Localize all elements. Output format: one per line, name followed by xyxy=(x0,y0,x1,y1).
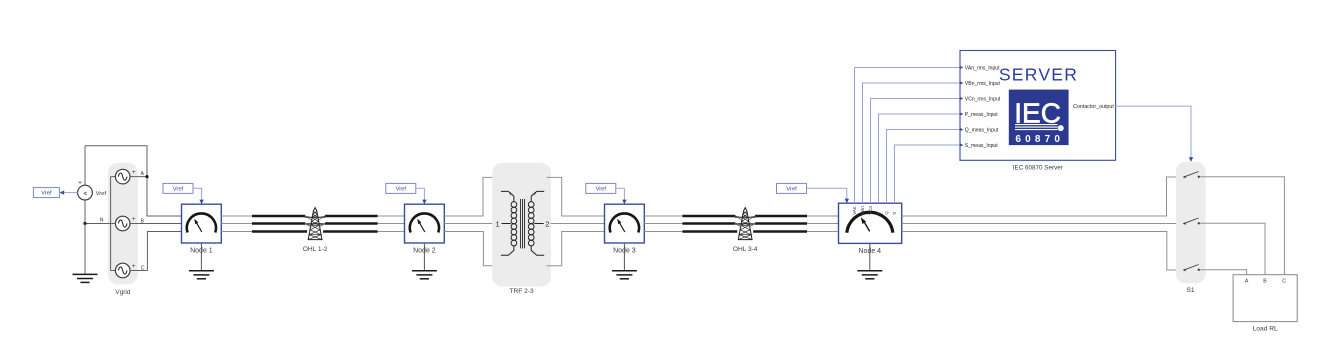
label S1 xyxy=(1186,287,1194,294)
ground (Node 4) xyxy=(857,271,882,279)
svg-text:VAn_rms_Input: VAn_rms_Input xyxy=(965,65,1000,71)
label Vgrid xyxy=(115,289,131,296)
svg-text:A: A xyxy=(1245,278,1249,284)
label Node 2 xyxy=(413,247,436,254)
svg-text:TRF 2-3: TRF 2-3 xyxy=(510,288,535,295)
wire (bus stub to phase A source) xyxy=(111,176,116,178)
svg-text:VBn_rms_Input: VBn_rms_Input xyxy=(965,81,1001,87)
Node 4 input pin labels xyxy=(852,206,897,215)
meter Node 4 xyxy=(839,203,902,243)
svg-text:OHL 1-2: OHL 1-2 xyxy=(303,246,328,253)
wire tag to Node 4 xyxy=(807,188,850,203)
svg-text:SERVER: SERVER xyxy=(999,65,1078,85)
svg-text:+: + xyxy=(132,169,136,176)
wire Node 2 pin A to TRF pin 1 top xyxy=(444,177,497,216)
wire (bus stub to phase C source) xyxy=(111,270,116,272)
load pin label B xyxy=(1263,278,1267,284)
polarity + of phase B xyxy=(132,216,136,223)
pin number 2 xyxy=(545,219,549,228)
svg-text:Vgrid: Vgrid xyxy=(115,289,131,296)
svg-text:VCn: VCn xyxy=(868,206,873,215)
label SERVER xyxy=(999,65,1078,85)
wire S1 pole 3 to load pin A xyxy=(1200,270,1247,275)
wire top run xyxy=(85,146,147,177)
pin number 1 xyxy=(496,219,500,228)
transformer secondary winding xyxy=(528,202,534,246)
port 1 lead xyxy=(502,223,511,225)
svg-text:OHL 3-4: OHL 3-4 xyxy=(733,246,758,253)
label TRF 2-3 xyxy=(510,288,535,295)
tag Vref (probe output) xyxy=(33,188,59,198)
svg-text:N: N xyxy=(100,218,104,224)
svg-text:P: P xyxy=(876,212,881,215)
svg-text:Vref: Vref xyxy=(396,186,407,192)
svg-text:S: S xyxy=(892,212,897,215)
svg-text:P_meas_Input: P_meas_Input xyxy=(965,112,998,118)
svg-text:Vref: Vref xyxy=(173,186,184,192)
wire S1 pole 2 to load pin B xyxy=(1200,223,1265,275)
polarity + secondary xyxy=(533,191,537,198)
svg-text:+: + xyxy=(78,179,82,186)
svg-text:S_meas_Input: S_meas_Input xyxy=(965,143,998,149)
svg-text:+: + xyxy=(533,191,537,198)
ground (Vgrid neutral) xyxy=(73,274,98,282)
polarity + of phase A xyxy=(132,169,136,176)
wire probe stem up xyxy=(84,146,86,185)
svg-text:Load RL: Load RL xyxy=(1253,325,1278,332)
polarity + of phase C xyxy=(132,263,136,270)
tag Vref (Node 1) xyxy=(163,183,193,193)
svg-text:Q: Q xyxy=(884,211,889,215)
svg-text:+: + xyxy=(509,191,513,198)
switch S1 pole 3 xyxy=(1183,265,1200,272)
signal wires Node 4 measurements to server inputs xyxy=(855,68,960,204)
label Node 3 xyxy=(613,247,636,254)
polarity + of probe xyxy=(78,179,82,186)
svg-text:Vref: Vref xyxy=(596,186,607,192)
wire phase A source to node A xyxy=(130,176,147,178)
wire tag to Node 3 xyxy=(616,188,627,204)
wire phase A riser down to Node 1 pin 1 xyxy=(147,177,182,216)
ground (Node 3) xyxy=(612,271,637,279)
wire tag to Node 1 xyxy=(193,188,204,204)
svg-text:2: 2 xyxy=(545,219,549,228)
wire probe + to node A (top run) xyxy=(84,185,86,200)
wire tag to Node 2 xyxy=(416,188,427,204)
label Load RL xyxy=(1253,325,1278,332)
wire phase C source to riser xyxy=(130,270,147,272)
transformer primary top lead xyxy=(501,191,514,201)
wire Node 4 pin C to S1 pole 3 xyxy=(902,232,1183,271)
transformer core xyxy=(521,199,525,248)
wire Node 2 ground stem xyxy=(423,243,425,271)
tag Vref (Node 3) xyxy=(586,183,616,193)
transformer primary winding xyxy=(511,202,517,246)
wire TRF port 2 to Node 3 pin B xyxy=(551,223,605,225)
ground (Node 2) xyxy=(412,271,437,279)
AC source Vgrid phase B xyxy=(115,216,130,231)
svg-text:C: C xyxy=(1282,278,1286,284)
tag Vref (Node 4) xyxy=(777,183,807,193)
svg-text:<: < xyxy=(83,190,87,197)
svg-text:A: A xyxy=(140,171,144,177)
wire phase B row (source to Node 1 pin 2) xyxy=(130,223,182,225)
svg-text:Q_meas_Input: Q_meas_Input xyxy=(965,127,999,133)
wire Contactor_output to S1 xyxy=(1116,106,1194,162)
meter Node 2 xyxy=(405,204,445,243)
svg-text:Vref: Vref xyxy=(96,191,107,197)
wire Node 4 ground stem xyxy=(869,243,871,270)
overhead line OHL 3-4 xyxy=(644,208,838,253)
svg-text:60870: 60870 xyxy=(1015,134,1064,145)
svg-text:Vref: Vref xyxy=(786,186,797,192)
port 2 lead xyxy=(534,223,543,225)
server input pins xyxy=(960,65,1001,148)
polarity + primary xyxy=(509,191,513,198)
three-phase source Vgrid (background) xyxy=(108,163,138,285)
wire Node 2 pin B to TRF port 1 xyxy=(444,223,493,225)
wire N (probe bus to phase B) xyxy=(85,223,115,225)
label Node 1 xyxy=(190,247,213,254)
wire Node 4 pin A to S1 pole 1 xyxy=(902,177,1183,216)
wire (neutral bus inside Vgrid) xyxy=(110,177,112,271)
svg-text:Vref: Vref xyxy=(41,191,52,197)
voltage probe Vref (measurement) xyxy=(78,185,93,200)
transformer TRF 2-3 (background) xyxy=(492,163,551,287)
ground (Node 1) xyxy=(189,271,214,279)
pin label N xyxy=(100,218,104,224)
svg-text:B: B xyxy=(1263,278,1267,284)
wire probe to tag xyxy=(60,190,78,194)
svg-text:VAn: VAn xyxy=(852,206,857,215)
svg-text:+: + xyxy=(132,216,136,223)
wire Node 1 ground stem xyxy=(200,243,202,271)
svg-text:VBn: VBn xyxy=(860,206,865,215)
load pin label C xyxy=(1282,278,1286,284)
pin label B xyxy=(140,218,144,224)
load Load RL (box) xyxy=(1233,275,1297,322)
switch S1 (background) xyxy=(1176,162,1206,283)
load pin label A xyxy=(1245,278,1249,284)
switch S1 pole 1 xyxy=(1183,172,1200,179)
svg-text:Contactor_output: Contactor_output xyxy=(1073,104,1114,110)
wire phase C riser xyxy=(147,232,181,271)
wire Node 4 pin B to S1 pole 2 xyxy=(902,223,1183,225)
wire Node 2 pin C to TRF pin 1 bottom xyxy=(444,232,497,266)
transformer primary bottom lead xyxy=(501,246,514,256)
meter Node 1 xyxy=(182,204,222,243)
AC source Vgrid phase A xyxy=(115,169,130,184)
pin label A xyxy=(140,171,144,177)
overhead line OHL 1-2 xyxy=(221,208,404,253)
tag Vref (Node 2) xyxy=(386,183,416,193)
switch S1 pole 2 xyxy=(1183,218,1200,225)
label IEC 60870 Server xyxy=(1013,165,1063,172)
junction node A xyxy=(145,175,148,178)
svg-text:IEC: IEC xyxy=(1014,97,1061,128)
logo IEC 60870 xyxy=(1009,90,1069,146)
server U1 IEC 60870 (box) xyxy=(960,51,1116,161)
junction N xyxy=(83,222,86,225)
wire Node 3 ground stem xyxy=(623,243,625,271)
svg-text:S1: S1 xyxy=(1186,287,1194,294)
AC source Vgrid phase C xyxy=(115,263,130,278)
svg-text:1: 1 xyxy=(496,219,500,228)
server output pin Contactor_output xyxy=(1073,104,1114,110)
svg-text:IEC 60870 Server: IEC 60870 Server xyxy=(1013,165,1063,172)
transformer secondary bottom lead xyxy=(531,246,544,256)
meter Node 3 xyxy=(605,204,645,243)
wire TRF pin 2 bottom to Node 3 pin C xyxy=(547,232,605,266)
svg-text:+: + xyxy=(132,263,136,270)
wire S1 pole 1 to load pin C xyxy=(1200,177,1284,275)
transformer secondary top lead xyxy=(531,191,544,201)
probe name Vref xyxy=(96,191,107,197)
wire probe to N bus xyxy=(84,200,86,224)
pin label C xyxy=(141,266,145,272)
label Node 4 xyxy=(859,248,882,255)
wire TRF pin 2 top to Node 3 pin A xyxy=(547,177,605,216)
svg-text:VCn_rms_Input: VCn_rms_Input xyxy=(965,96,1001,102)
wire probe ground stem xyxy=(84,224,86,275)
